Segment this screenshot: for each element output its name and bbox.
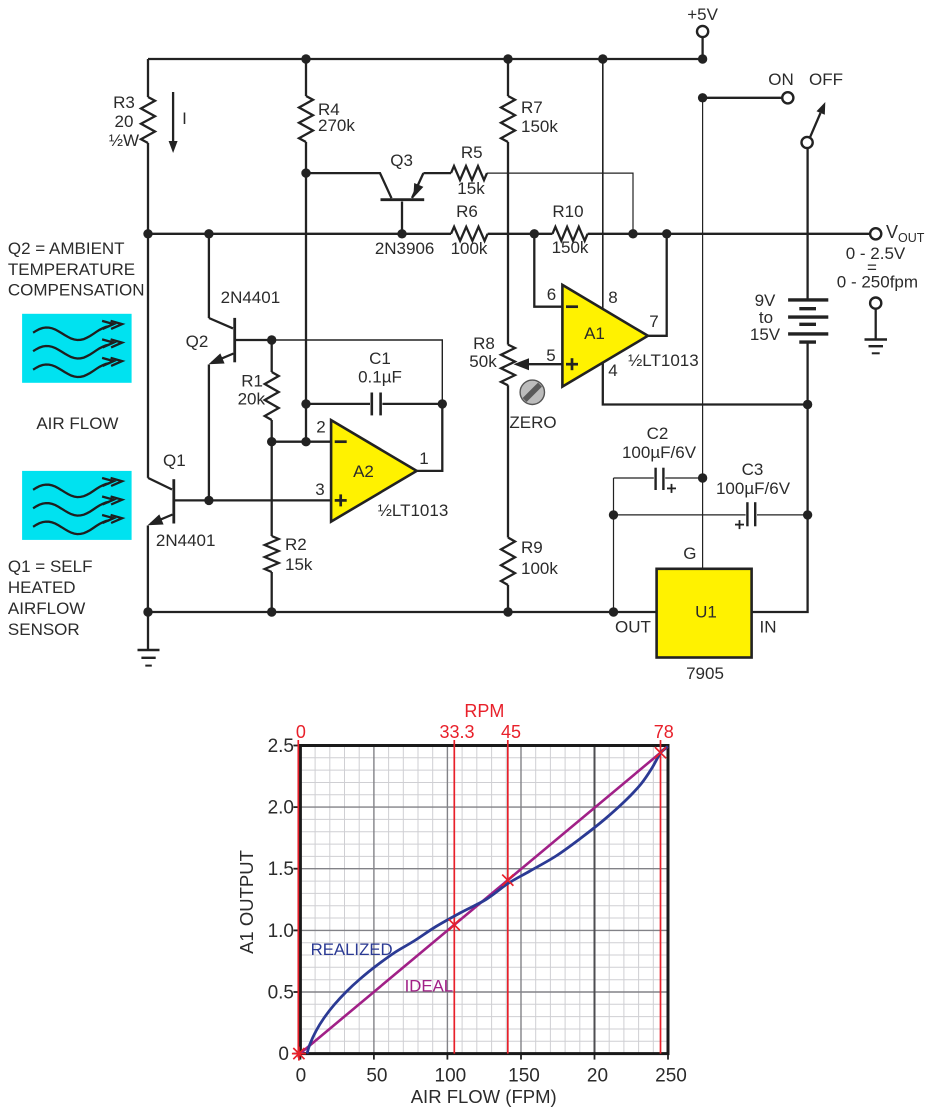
svg-text:1.0: 1.0 xyxy=(268,921,294,942)
wire A2 pin 2 input xyxy=(272,441,331,443)
svg-text:SENSOR: SENSOR xyxy=(8,620,80,639)
svg-text:1.5: 1.5 xyxy=(268,859,294,880)
plus sign A1 pin 5 xyxy=(566,358,578,370)
minus sign A1 pin 6 xyxy=(566,305,578,308)
svg-text:100k: 100k xyxy=(451,239,488,258)
node C3 right / IN column xyxy=(803,510,812,519)
wire R5 to VOUT rail xyxy=(487,173,633,234)
svg-text:8: 8 xyxy=(608,288,617,307)
svg-text:Q1 = SELF: Q1 = SELF xyxy=(8,557,93,576)
plus sign C3 xyxy=(735,520,744,529)
terminal VOUT return xyxy=(870,298,881,309)
svg-text:C2: C2 xyxy=(647,424,669,443)
value label R5 15k xyxy=(457,143,485,198)
wire Q2 emitter down to Q1 base node xyxy=(208,365,210,501)
svg-text:270k: 270k xyxy=(318,116,355,135)
wire A1 pin 8 to +5V rail xyxy=(602,59,604,310)
svg-text:2.5: 2.5 xyxy=(268,736,294,757)
wire VOUT rail (right of R10) xyxy=(588,233,871,235)
svg-text:Q2 = AMBIENT: Q2 = AMBIENT xyxy=(8,239,125,258)
wire top +5V rail xyxy=(148,58,703,60)
red RPM vertical line 0 xyxy=(297,740,299,1058)
red RPM vertical line 33.3 xyxy=(453,740,455,1054)
resistor R4 xyxy=(299,59,313,173)
svg-text:45: 45 xyxy=(501,722,521,742)
node ground rail / C2-U1 OUT xyxy=(609,607,618,616)
svg-text:IN: IN xyxy=(760,618,777,637)
svg-text:150k: 150k xyxy=(521,117,558,136)
chart minor gridlines xyxy=(300,746,668,1054)
svg-text:15V: 15V xyxy=(750,325,781,344)
svg-text:R3: R3 xyxy=(113,93,135,112)
chart major gridlines xyxy=(300,746,668,1054)
wire OFF switch to battery + xyxy=(806,148,808,300)
node VOUT rail / A1 pin 7 branch xyxy=(662,229,671,238)
svg-text:C1: C1 xyxy=(369,349,391,368)
wire A1 pin 4 to negative rail xyxy=(603,362,808,405)
node ground rail / R9 xyxy=(503,607,512,616)
svg-text:A1: A1 xyxy=(584,324,605,343)
wire Q3 emitter to R5 xyxy=(423,172,451,174)
node Q1 base / Q2 emitter xyxy=(204,496,213,505)
svg-text:+5V: +5V xyxy=(687,5,718,24)
svg-text:1: 1 xyxy=(419,449,428,468)
node C1 right / A2 pin 1 xyxy=(438,399,447,408)
svg-text:I: I xyxy=(182,109,187,128)
wire C1 right node to A2 output xyxy=(417,404,443,471)
wire VOUT return to ground xyxy=(875,308,877,339)
trimmer screw symbol (ZERO) xyxy=(520,380,544,404)
resistor R10 xyxy=(553,227,588,241)
svg-text:0: 0 xyxy=(296,722,306,742)
chart axis tick marks xyxy=(293,746,668,1060)
switch ON terminal xyxy=(782,92,793,103)
svg-text:0.5: 0.5 xyxy=(268,983,294,1004)
resistor R6 xyxy=(451,227,488,241)
curve IDEAL (magenta) xyxy=(300,747,668,1054)
node top rail / R4 xyxy=(301,54,310,63)
svg-text:2: 2 xyxy=(316,418,325,437)
svg-text:100: 100 xyxy=(435,1066,467,1087)
svg-text:20k: 20k xyxy=(238,390,266,409)
svg-text:R9: R9 xyxy=(521,538,543,557)
svg-text:RPM: RPM xyxy=(464,701,504,721)
svg-text:15k: 15k xyxy=(285,555,313,574)
value label R3 20 1/2W xyxy=(109,93,139,150)
svg-text:50: 50 xyxy=(366,1066,387,1087)
svg-text:A1 OUTPUT: A1 OUTPUT xyxy=(236,850,257,954)
svg-text:Q3: Q3 xyxy=(390,151,413,170)
wiper arrow of R8 xyxy=(514,358,563,370)
switch S1 blade (OFF position) xyxy=(802,102,826,148)
svg-text:2.0: 2.0 xyxy=(268,798,294,819)
svg-text:15k: 15k xyxy=(457,179,485,198)
svg-text:3: 3 xyxy=(315,480,324,499)
resistor R5 xyxy=(451,166,487,180)
value label R2 15k xyxy=(285,535,313,574)
svg-text:0: 0 xyxy=(296,1066,307,1087)
node ground rail / Q1 emitter xyxy=(143,607,152,616)
svg-text:ON: ON xyxy=(768,70,794,89)
svg-text:7905: 7905 xyxy=(686,664,724,683)
svg-text:COMPENSATION: COMPENSATION xyxy=(8,281,145,300)
value label 9V to 15V xyxy=(750,291,781,344)
svg-text:Q2: Q2 xyxy=(186,332,209,351)
svg-text:R2: R2 xyxy=(285,535,307,554)
svg-text:2N3906: 2N3906 xyxy=(375,239,435,258)
svg-text:6: 6 xyxy=(547,285,556,304)
air flow icon (upper) xyxy=(22,314,132,383)
wire Q2 collector to VOUT rail xyxy=(208,234,210,318)
chart dark gridline at 200 FPM xyxy=(594,746,596,1054)
node VOUT rail / R5 branch xyxy=(628,229,637,238)
value label R8 50k xyxy=(469,334,497,371)
resistor R7 xyxy=(501,59,515,345)
capacitor C2 100uF/6V xyxy=(614,468,703,490)
svg-text:2N4401: 2N4401 xyxy=(156,531,216,550)
svg-text:20: 20 xyxy=(587,1066,608,1087)
curve REALIZED (blue) xyxy=(307,747,668,1054)
svg-text:½W: ½W xyxy=(109,131,139,150)
wire C2 left to OUT node xyxy=(613,478,615,612)
svg-text:OUT: OUT xyxy=(615,618,651,637)
svg-text:A2: A2 xyxy=(353,462,374,481)
node VOUT rail / Q2 collector xyxy=(204,229,213,238)
red X data marker xyxy=(293,1048,304,1059)
transistor Q3 2N3906 xyxy=(306,173,424,234)
plus sign C2 xyxy=(667,484,676,493)
+5V supply terminal xyxy=(697,26,708,59)
wire battery - to lower rail xyxy=(806,342,808,404)
capacitor C3 100uF/6V xyxy=(747,502,807,526)
red asterisk extra strokes at origin xyxy=(292,1047,306,1061)
node C2 branch / C3 net xyxy=(609,510,618,519)
svg-text:C3: C3 xyxy=(742,460,764,479)
svg-text:7: 7 xyxy=(649,312,658,331)
svg-text:OFF: OFF xyxy=(809,70,843,89)
potentiometer R8 50k xyxy=(501,345,515,386)
current arrow I xyxy=(169,92,178,153)
svg-text:0 - 250fpm: 0 - 250fpm xyxy=(837,273,918,292)
value label R6 100k xyxy=(451,202,488,258)
node top rail / R7 xyxy=(503,54,512,63)
minus sign A2 pin 2 xyxy=(335,440,347,443)
svg-text:½LT1013: ½LT1013 xyxy=(378,501,449,520)
wire A2 pin 3 to Q1 base xyxy=(174,499,331,501)
value label R1 20k xyxy=(238,372,266,409)
svg-text:250: 250 xyxy=(655,1066,687,1087)
svg-text:R1: R1 xyxy=(241,372,263,391)
resistor R3 xyxy=(141,59,155,234)
note Q2 = AMBIENT TEMPERATURE COMPENSATION xyxy=(8,239,145,299)
node pin4 rail / battery column xyxy=(803,400,812,409)
wire A1 pin 6 to R10 left node xyxy=(534,234,562,307)
regulator U1 7905 xyxy=(657,569,752,658)
wire Q1 emitter to ground rail xyxy=(147,526,149,613)
value label C1 0.1uF xyxy=(358,349,402,387)
svg-text:100µF/6V: 100µF/6V xyxy=(716,479,791,498)
op-amp A1 (1/2 LT1013) xyxy=(562,285,648,387)
chart border xyxy=(300,746,668,1054)
red X data marker xyxy=(502,875,513,886)
node top rail / A1 pin 8 xyxy=(598,54,607,63)
value label R9 100k xyxy=(521,538,558,578)
node C1 left / R4 column xyxy=(301,399,310,408)
air flow icon (lower) xyxy=(22,471,132,540)
value label C2 100uF/6V xyxy=(622,424,697,462)
svg-text:U1: U1 xyxy=(695,603,717,622)
red RPM vertical line 45 xyxy=(507,740,509,1054)
node Q2 base / R1 top xyxy=(267,335,276,344)
wire VOUT rail (R6 to R10) xyxy=(488,233,553,235)
svg-text:50k: 50k xyxy=(469,352,497,371)
node VOUT rail / A1 pin 6 branch xyxy=(530,229,539,238)
value label R7 150k xyxy=(521,98,558,136)
wire +5V column down to U1 G pin xyxy=(702,98,704,569)
node pin2 wire / R1 bottom xyxy=(267,437,276,446)
resistor R2 xyxy=(265,442,279,612)
svg-text:AIRFLOW: AIRFLOW xyxy=(8,599,85,618)
svg-text:150k: 150k xyxy=(552,238,589,257)
node ground rail / R2 xyxy=(267,607,276,616)
battery B1 9V-15V xyxy=(788,300,828,342)
node +5V / ON branch xyxy=(698,93,707,102)
wire C3 net xyxy=(614,514,746,516)
svg-text:R6: R6 xyxy=(456,202,478,221)
wire ON branch xyxy=(703,97,783,99)
wire bottom ground rail xyxy=(148,611,657,613)
svg-text:R5: R5 xyxy=(461,143,483,162)
capacitor C1 0.1uF xyxy=(306,393,442,416)
svg-text:20: 20 xyxy=(115,112,134,131)
node Q3 collector / R4 xyxy=(301,168,310,177)
svg-text:150: 150 xyxy=(508,1066,540,1087)
ground (main) xyxy=(138,612,160,666)
svg-text:IDEAL: IDEAL xyxy=(405,977,454,996)
svg-text:0: 0 xyxy=(278,1044,289,1065)
value label R10 150k xyxy=(552,202,589,257)
wire Q1 collector from VOUT rail xyxy=(147,234,149,478)
note Q1 = SELF HEATED AIRFLOW SENSOR xyxy=(8,557,93,639)
terminal VOUT xyxy=(870,228,881,239)
svg-text:33.3: 33.3 xyxy=(439,722,474,742)
svg-text:4: 4 xyxy=(608,361,617,380)
red X data marker xyxy=(655,747,666,758)
resistor R1 xyxy=(265,340,279,442)
svg-text:G: G xyxy=(683,544,696,563)
node VOUT rail / Q3 base xyxy=(397,229,406,238)
svg-text:78: 78 xyxy=(654,722,674,742)
node top rail / +5V column xyxy=(698,54,707,63)
svg-text:HEATED: HEATED xyxy=(8,578,76,597)
svg-text:100k: 100k xyxy=(521,559,558,578)
wire A1 pin 7 output to VOUT rail xyxy=(648,234,667,336)
svg-text:Q1: Q1 xyxy=(163,451,186,470)
node pin2 wire / R4 column xyxy=(301,437,310,446)
wire VOUT rail (left of R6) xyxy=(148,233,451,235)
wire U1 IN to battery column xyxy=(752,405,808,613)
transistor Q1 2N4401 xyxy=(148,478,174,525)
red RPM vertical line 78 xyxy=(660,740,662,1054)
value label R4 270k xyxy=(318,100,355,135)
node C2 / G column xyxy=(698,473,707,482)
svg-text:2N4401: 2N4401 xyxy=(221,288,281,307)
svg-text:0.1µF: 0.1µF xyxy=(358,368,402,387)
ground (VOUT return) xyxy=(865,340,888,354)
op-amp A2 (1/2 LT1013) xyxy=(331,420,417,521)
svg-text:ZERO: ZERO xyxy=(509,413,556,432)
svg-text:AIR FLOW (FPM): AIR FLOW (FPM) xyxy=(411,1086,557,1107)
svg-text:½LT1013: ½LT1013 xyxy=(628,351,699,370)
node VOUT rail / R3-Q1 column xyxy=(143,229,152,238)
resistor R9 xyxy=(501,385,515,612)
svg-text:TEMPERATURE: TEMPERATURE xyxy=(8,260,135,279)
wire R4 column down to A2 pin 2 node xyxy=(305,173,307,442)
value label C3 100uF/6V xyxy=(716,460,791,498)
svg-text:REALIZED: REALIZED xyxy=(311,940,393,959)
svg-text:R10: R10 xyxy=(552,202,583,221)
svg-text:R7: R7 xyxy=(521,98,543,117)
svg-text:5: 5 xyxy=(546,346,555,365)
svg-text:AIR FLOW: AIR FLOW xyxy=(36,414,118,433)
svg-text:100µF/6V: 100µF/6V xyxy=(622,443,697,462)
transistor Q2 2N4401 xyxy=(209,318,272,364)
svg-text:R8: R8 xyxy=(473,334,495,353)
red X data marker xyxy=(449,919,460,930)
plus sign A2 pin 3 xyxy=(335,494,347,506)
wire A2 output net (Q2 base to C1 right node) xyxy=(272,340,443,404)
